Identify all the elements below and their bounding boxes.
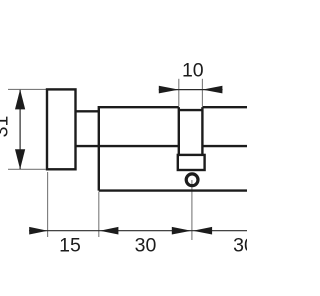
svg-text:31: 31 (0, 116, 13, 138)
svg-text:10: 10 (182, 59, 204, 81)
svg-text:30: 30 (135, 235, 157, 257)
svg-text:30: 30 (233, 235, 247, 257)
svg-text:15: 15 (59, 235, 81, 257)
